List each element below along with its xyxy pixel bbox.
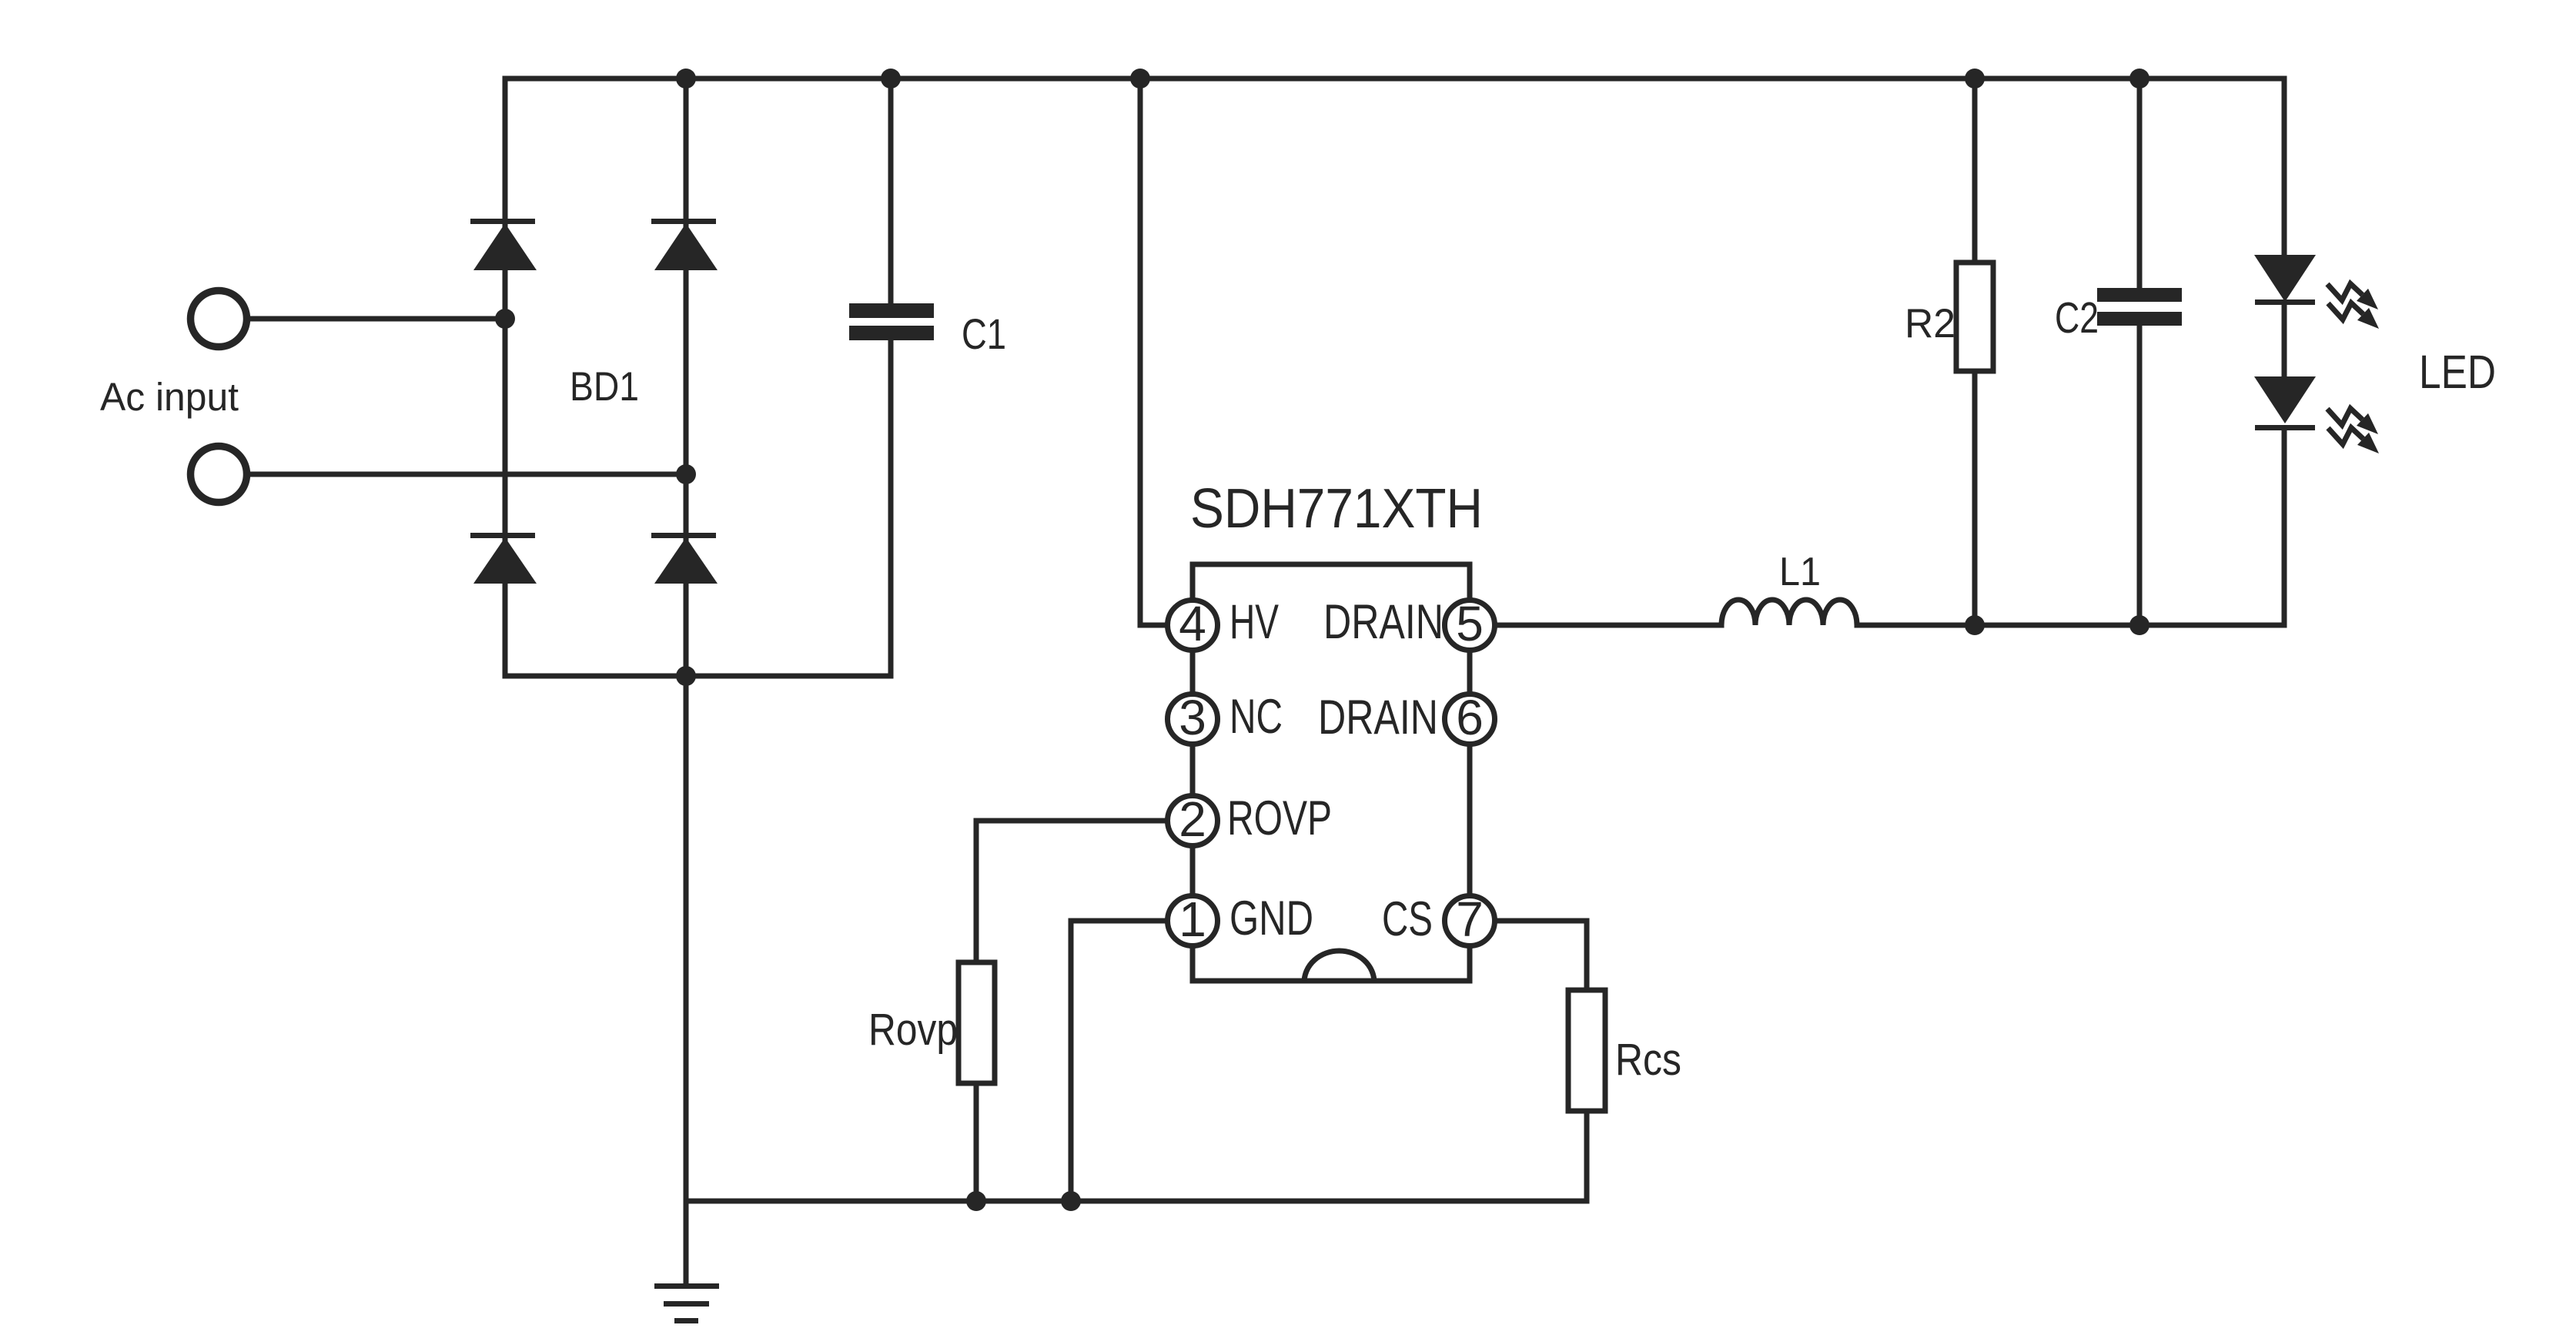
svg-text:C2: C2 — [2055, 293, 2099, 343]
resistor Rcs — [1568, 990, 1605, 1111]
svg-text:1: 1 — [1179, 892, 1206, 947]
svg-text:C1: C1 — [962, 309, 1006, 358]
svg-text:Ac input: Ac input — [100, 375, 239, 419]
wire HV feed — [1140, 79, 1167, 625]
wire drain output to L1 — [1495, 623, 1721, 628]
node output / C2 — [2129, 615, 2149, 635]
svg-text:6: 6 — [1456, 690, 1484, 745]
svg-text:DRAIN: DRAIN — [1323, 595, 1444, 649]
svg-text:HV: HV — [1229, 595, 1279, 649]
LED D6 — [2254, 376, 2316, 430]
svg-text:GND: GND — [1229, 892, 1313, 945]
resistor Rovp — [958, 962, 995, 1083]
capacitor C2 plates — [2097, 288, 2182, 326]
pin 3 — [1168, 690, 1218, 745]
svg-text:2: 2 — [1179, 791, 1206, 847]
wire LED string — [2282, 79, 2287, 625]
node Rovp / ground bus — [966, 1191, 986, 1211]
node top bus / C1 — [881, 69, 901, 89]
diode D4 bottom-right of BD1 — [651, 533, 718, 584]
svg-text:3: 3 — [1179, 690, 1206, 745]
wire Rovp to ground bus — [974, 1083, 979, 1201]
node bridge bottom — [676, 666, 696, 686]
inductor L1 — [1721, 600, 1857, 625]
svg-text:Rovp: Rovp — [868, 1005, 958, 1055]
svg-text:SDH771XTH: SDH771XTH — [1190, 478, 1483, 540]
pin 5 — [1445, 596, 1495, 651]
wire pin7 CS to Rcs — [1495, 921, 1587, 990]
node top bus / HV — [1130, 69, 1150, 89]
pin 7 — [1445, 892, 1495, 947]
svg-text:Rcs: Rcs — [1615, 1035, 1681, 1085]
node AC neutral / bridge — [676, 464, 696, 484]
capacitor C1 plates — [849, 303, 934, 340]
ground — [654, 1283, 719, 1323]
capacitor C2 leads — [2137, 79, 2143, 625]
svg-text:DRAIN: DRAIN — [1318, 691, 1438, 744]
node output / R2 — [1965, 615, 1985, 635]
IC notch — [1304, 951, 1374, 982]
pin 2 — [1168, 791, 1218, 847]
svg-text:NC: NC — [1229, 690, 1283, 744]
resistor R2 leads — [1972, 79, 1978, 625]
wire AC neutral to bridge — [247, 472, 686, 477]
wire pin1 GND down — [1071, 921, 1167, 1201]
svg-text:L1: L1 — [1779, 550, 1821, 594]
svg-text:R2: R2 — [1905, 301, 1955, 346]
wire ground bus bottom — [686, 1199, 1587, 1204]
svg-text:5: 5 — [1456, 596, 1484, 651]
diode D2 top-right of BD1 — [651, 219, 718, 270]
wire bridge bottom — [505, 674, 891, 679]
resistor R2 — [1956, 263, 1993, 371]
LED D5 light arrows — [2327, 284, 2379, 330]
svg-text:BD1: BD1 — [570, 364, 639, 410]
node top bus / R2 — [1965, 69, 1985, 89]
op-amp U1 : IC SDH771XTH body — [1193, 564, 1470, 981]
node AC live / bridge — [495, 309, 515, 329]
diode D1 top-left of BD1 — [470, 219, 537, 270]
wire top bus — [505, 76, 2284, 82]
wire pin2 ROVP to Rovp — [976, 821, 1167, 962]
svg-text:LED: LED — [2419, 346, 2496, 398]
wire AC live to bridge — [247, 316, 505, 322]
svg-text:4: 4 — [1179, 596, 1206, 651]
pin 6 — [1445, 690, 1495, 745]
AC terminal 2 — [191, 447, 247, 503]
AC terminal 1 — [191, 291, 247, 347]
pin 1 — [1168, 892, 1218, 947]
LED D6 light arrows — [2327, 409, 2379, 454]
wire Rcs to ground bus — [1584, 1111, 1590, 1201]
node GND / ground bus — [1061, 1191, 1081, 1211]
LED D5 — [2254, 255, 2316, 305]
pin 4 — [1168, 596, 1218, 651]
svg-text:CS: CS — [1382, 892, 1433, 946]
node top bus / bridge right — [676, 69, 696, 89]
wire L1 to output node — [1857, 623, 2284, 628]
svg-text:ROVP: ROVP — [1227, 791, 1332, 845]
svg-text:7: 7 — [1456, 892, 1484, 947]
diode D3 bottom-left of BD1 — [470, 533, 537, 584]
node top bus / C2 — [2129, 69, 2149, 89]
capacitor C1 leads — [888, 79, 894, 676]
wire bridge right column / ground stem — [684, 79, 689, 1286]
wire bridge left column — [503, 79, 508, 676]
